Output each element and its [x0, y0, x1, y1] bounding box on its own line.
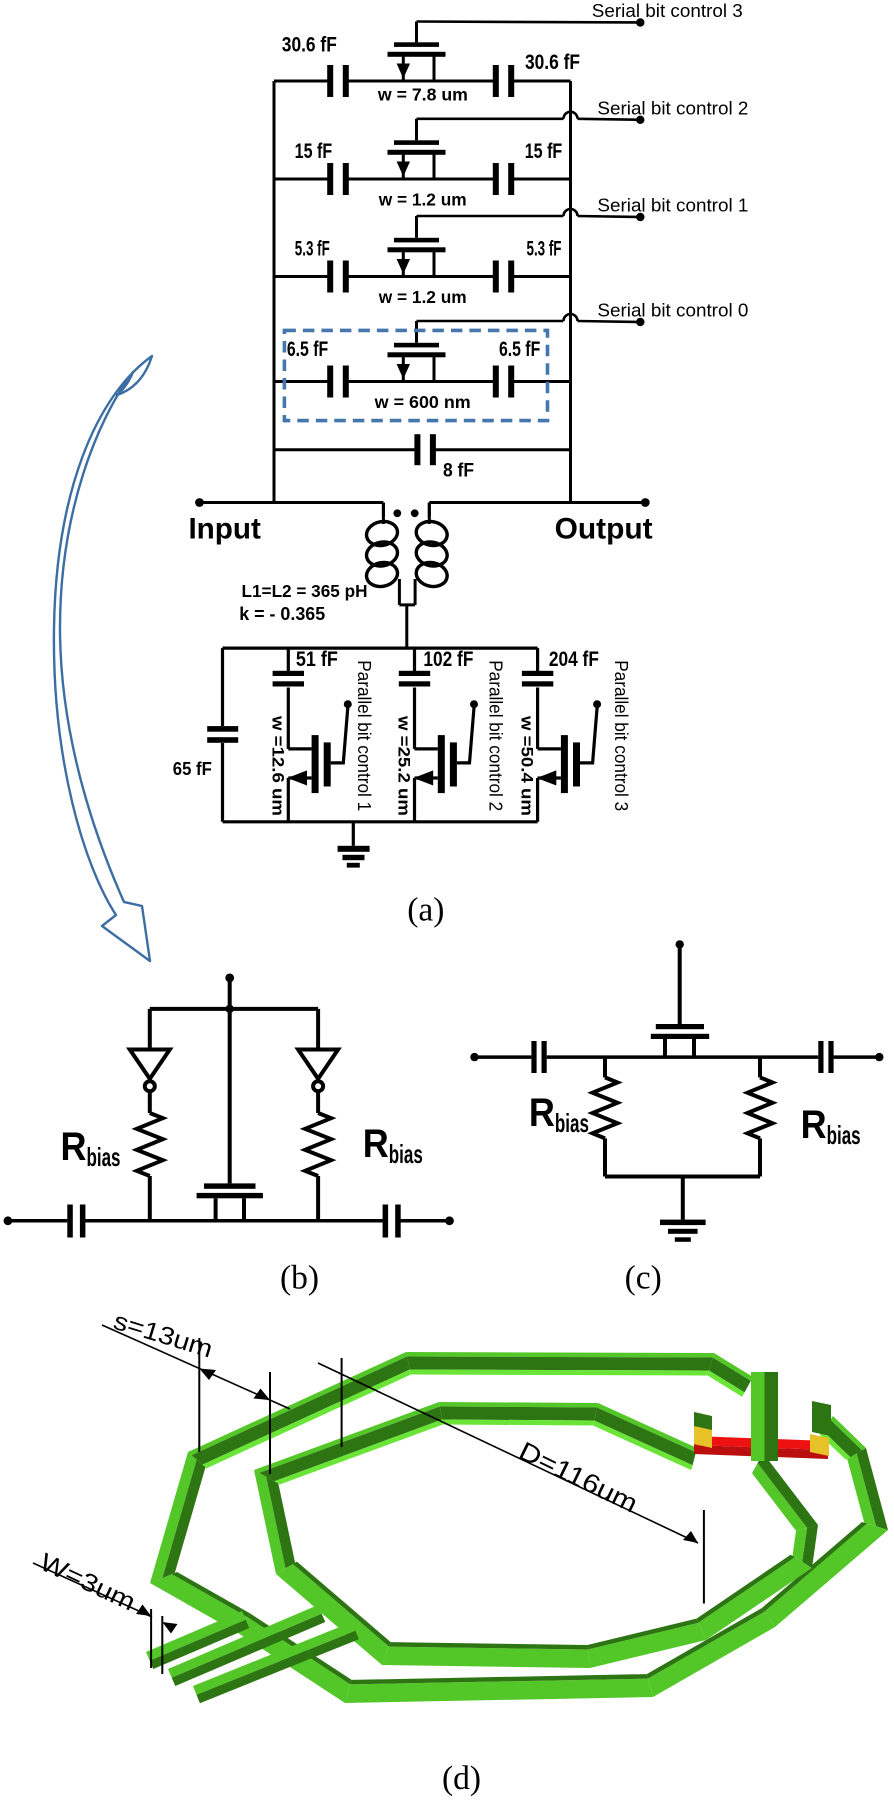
svg-text:65 fF: 65 fF — [173, 759, 212, 779]
svg-text:6.5 fF: 6.5 fF — [287, 338, 328, 361]
svg-text:w =25.2 um: w =25.2 um — [395, 715, 414, 816]
svg-text:w = 7.8 um: w = 7.8 um — [377, 85, 468, 105]
svg-text:w =12.6 um: w =12.6 um — [268, 715, 287, 816]
svg-text:Serial bit control 1: Serial bit control 1 — [597, 195, 748, 216]
svg-text:30.6 fF: 30.6 fF — [525, 51, 580, 74]
svg-text:6.5 fF: 6.5 fF — [499, 338, 540, 361]
svg-text:Parallel bit control 1: Parallel bit control 1 — [354, 660, 374, 811]
svg-text:(d): (d) — [442, 1760, 481, 1797]
svg-text:8 fF: 8 fF — [443, 461, 474, 482]
svg-text:102 fF: 102 fF — [423, 648, 473, 671]
svg-text:(b): (b) — [280, 1260, 319, 1297]
svg-text:w = 1.2 um: w = 1.2 um — [378, 189, 467, 209]
svg-text:Input: Input — [188, 513, 261, 546]
svg-text:5.3 fF: 5.3 fF — [295, 238, 330, 261]
svg-text:204 fF: 204 fF — [549, 648, 599, 671]
svg-text:k = - 0.365: k = - 0.365 — [239, 604, 325, 624]
svg-text:30.6 fF: 30.6 fF — [282, 34, 337, 57]
svg-text:L1=L2 = 365 pH: L1=L2 = 365 pH — [242, 581, 368, 601]
svg-text:w = 1.2 um: w = 1.2 um — [378, 287, 467, 307]
svg-text:Output: Output — [555, 513, 653, 546]
svg-text:15 fF: 15 fF — [295, 140, 333, 163]
svg-text:Parallel bit control 3: Parallel bit control 3 — [611, 660, 631, 811]
svg-text:(a): (a) — [407, 892, 444, 929]
svg-text:Parallel bit control 2: Parallel bit control 2 — [485, 660, 505, 811]
svg-text:5.3 fF: 5.3 fF — [527, 238, 562, 261]
svg-text:Serial bit control 3: Serial bit control 3 — [592, 0, 743, 21]
svg-text:Serial bit control 2: Serial bit control 2 — [597, 97, 748, 118]
svg-text:w =50.4 um: w =50.4 um — [518, 715, 537, 816]
svg-text:(c): (c) — [625, 1260, 662, 1297]
svg-text:w = 600 nm: w = 600 nm — [374, 392, 471, 412]
svg-text:Serial bit control 0: Serial bit control 0 — [597, 300, 748, 321]
svg-text:51 fF: 51 fF — [296, 648, 338, 671]
svg-text:15 fF: 15 fF — [525, 140, 563, 163]
